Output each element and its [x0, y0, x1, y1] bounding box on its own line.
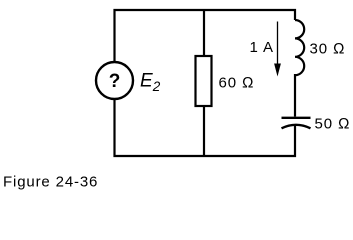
capacitor C (50 ohm) — [282, 118, 311, 129]
wire middle branch bottom — [203, 106, 205, 156]
svg-text:30 Ω: 30 Ω — [310, 40, 346, 57]
svg-text:1 A: 1 A — [250, 39, 274, 56]
wire top — [115, 10, 296, 62]
source E2 (circle with ?) — [96, 62, 133, 99]
inductor L (30 ohm coil) — [295, 20, 304, 75]
svg-text:60 Ω: 60 Ω — [219, 74, 255, 91]
wire middle branch top — [203, 10, 205, 56]
current arrow 1 A — [274, 22, 281, 77]
wire inductor to capacitor — [294, 74, 296, 117]
resistor R (60 ohm) — [196, 56, 212, 106]
wire bottom — [115, 100, 296, 157]
svg-text:Figure 24-36: Figure 24-36 — [3, 174, 98, 191]
svg-text:50 Ω: 50 Ω — [315, 115, 351, 132]
svg-text:?: ? — [109, 71, 121, 92]
svg-text:E2: E2 — [140, 71, 161, 95]
